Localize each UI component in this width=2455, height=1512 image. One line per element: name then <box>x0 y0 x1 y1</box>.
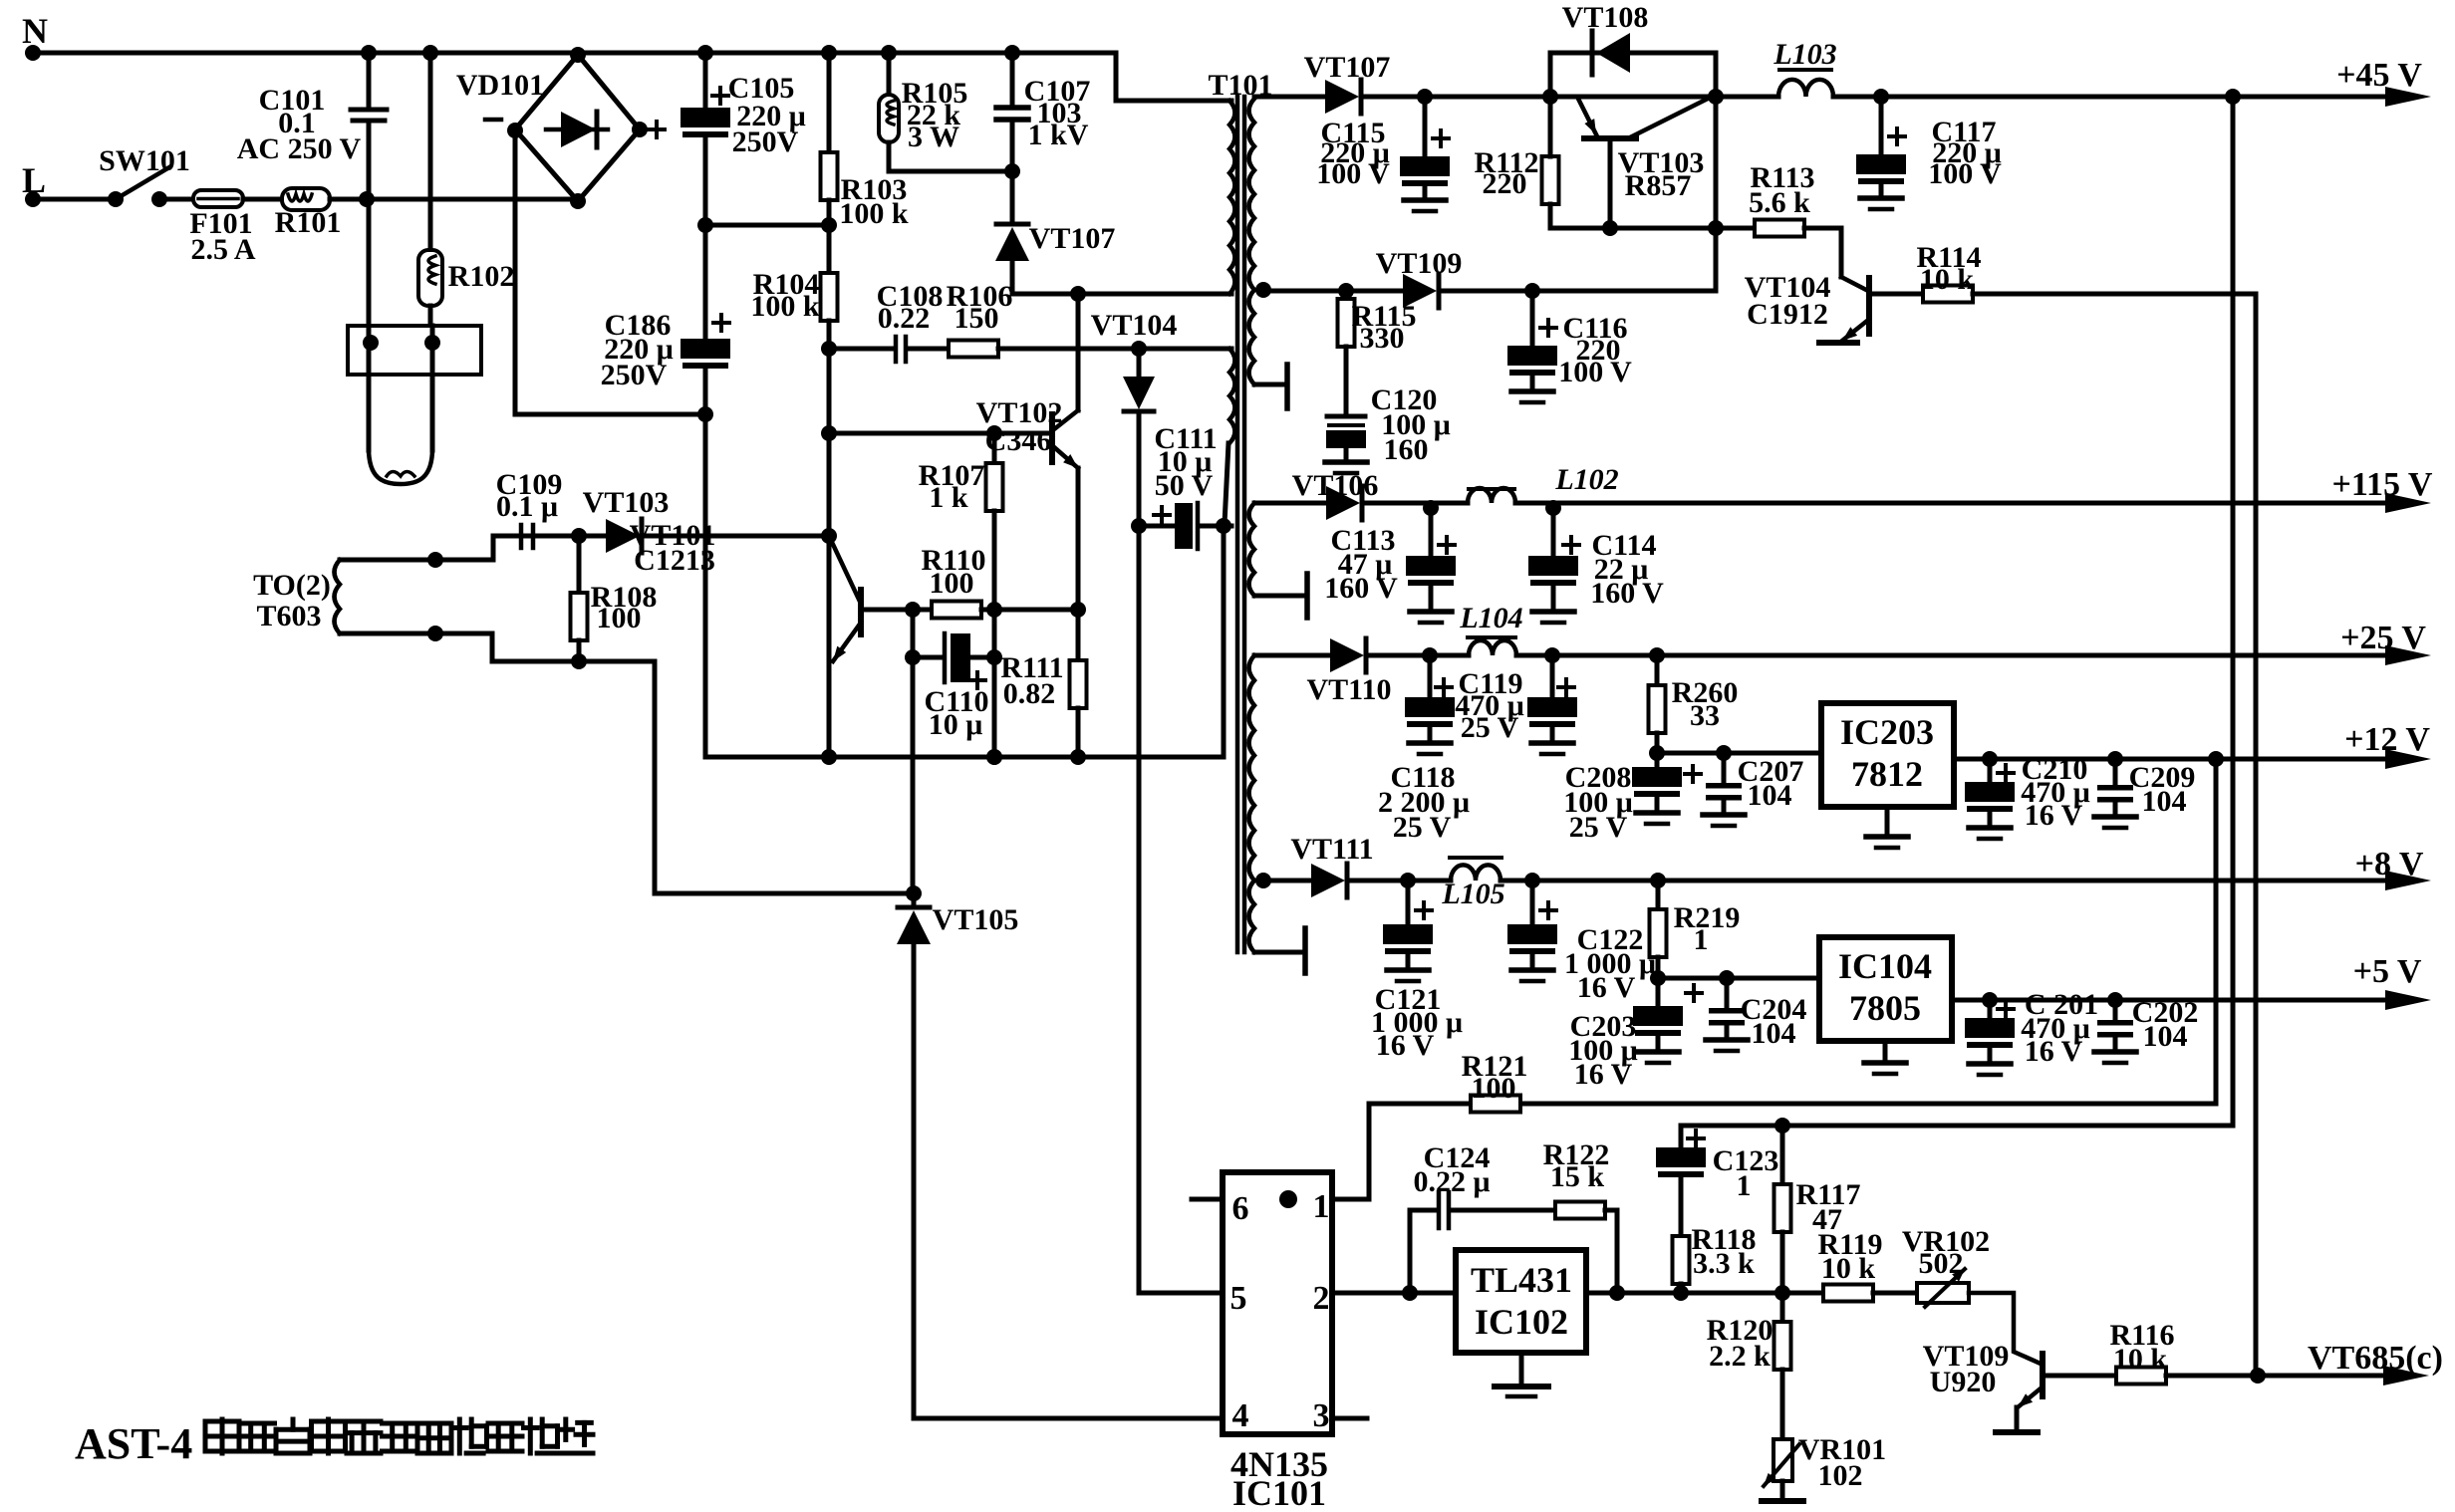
svg-text:330: 330 <box>1360 322 1405 355</box>
svg-text:100: 100 <box>930 567 974 600</box>
svg-text:1 k: 1 k <box>929 481 968 514</box>
svg-text:25 V: 25 V <box>1393 811 1452 844</box>
svg-text:T101: T101 <box>1208 69 1272 102</box>
svg-text:100 k: 100 k <box>839 197 909 230</box>
svg-text:L103: L103 <box>1773 38 1836 71</box>
svg-text:0.1 μ: 0.1 μ <box>496 490 558 523</box>
svg-text:VT109: VT109 <box>1376 247 1463 280</box>
svg-text:3 W: 3 W <box>908 121 959 153</box>
svg-text:160 V: 160 V <box>1324 572 1398 605</box>
svg-text:U920: U920 <box>1930 1366 1997 1398</box>
svg-text:VT108: VT108 <box>1562 1 1649 34</box>
svg-text:16 V: 16 V <box>1577 971 1636 1004</box>
svg-text:VT106: VT106 <box>1292 469 1379 502</box>
svg-text:IC203: IC203 <box>1840 712 1934 752</box>
svg-text:IC104: IC104 <box>1838 946 1932 986</box>
svg-text:VT110: VT110 <box>1306 673 1391 706</box>
svg-text:1: 1 <box>1313 1188 1330 1225</box>
svg-text:100 V: 100 V <box>1928 157 2002 190</box>
svg-text:AST-4: AST-4 <box>75 1419 192 1468</box>
svg-text:SW101: SW101 <box>99 144 190 177</box>
svg-text:100 k: 100 k <box>750 290 820 323</box>
svg-text:502: 502 <box>1919 1247 1964 1280</box>
svg-text:VT107: VT107 <box>1029 222 1116 255</box>
svg-text:TO(2): TO(2) <box>253 569 331 602</box>
svg-text:4: 4 <box>1232 1397 1249 1434</box>
svg-text:R857: R857 <box>1625 169 1692 202</box>
svg-text:L105: L105 <box>1441 878 1504 910</box>
svg-text:100 V: 100 V <box>1316 157 1390 190</box>
svg-text:2.2 k: 2.2 k <box>1709 1340 1771 1373</box>
svg-text:15 k: 15 k <box>1550 1160 1605 1193</box>
svg-text:5: 5 <box>1230 1280 1247 1317</box>
svg-text:1: 1 <box>1737 1169 1752 1202</box>
svg-text:104: 104 <box>2142 785 2187 818</box>
svg-text:100 V: 100 V <box>1558 356 1632 388</box>
svg-text:104: 104 <box>1752 1017 1796 1050</box>
svg-text:R101: R101 <box>275 206 342 239</box>
svg-text:102: 102 <box>1818 1459 1863 1492</box>
svg-text:33: 33 <box>1690 699 1720 732</box>
svg-text:10 k: 10 k <box>1920 263 1975 296</box>
svg-text:250V: 250V <box>732 126 799 158</box>
svg-text:16 V: 16 V <box>1574 1058 1633 1091</box>
svg-text:1: 1 <box>1694 923 1709 956</box>
svg-text:3: 3 <box>1313 1397 1330 1434</box>
svg-text:2.5 A: 2.5 A <box>190 233 255 266</box>
svg-text:R102: R102 <box>448 260 515 293</box>
svg-text:7812: 7812 <box>1851 754 1923 794</box>
svg-text:C346: C346 <box>985 424 1052 457</box>
svg-text:10 k: 10 k <box>1821 1252 1876 1285</box>
svg-text:2: 2 <box>1313 1280 1330 1317</box>
svg-text:16 V: 16 V <box>1376 1029 1435 1062</box>
svg-text:IC102: IC102 <box>1475 1302 1568 1342</box>
svg-text:104: 104 <box>2143 1020 2188 1053</box>
svg-text:VT107: VT107 <box>1304 51 1391 84</box>
svg-text:1 kV: 1 kV <box>1028 119 1089 151</box>
svg-text:+12 V: +12 V <box>2344 721 2430 758</box>
svg-text:L: L <box>22 160 46 200</box>
svg-text:AC 250 V: AC 250 V <box>237 132 362 165</box>
svg-text:220: 220 <box>1483 167 1527 200</box>
svg-text:150: 150 <box>955 302 999 335</box>
svg-text:5.6 k: 5.6 k <box>1749 186 1810 219</box>
svg-text:VT103: VT103 <box>583 486 670 519</box>
svg-text:VT111: VT111 <box>1290 833 1373 866</box>
svg-text:0.22: 0.22 <box>878 302 931 335</box>
svg-text:T603: T603 <box>256 600 321 632</box>
svg-text:C1912: C1912 <box>1747 298 1828 331</box>
svg-text:160: 160 <box>1384 433 1429 466</box>
svg-text:N: N <box>22 11 48 51</box>
svg-text:50 V: 50 V <box>1155 469 1214 502</box>
svg-text:10 μ: 10 μ <box>929 708 983 741</box>
svg-text:VT105: VT105 <box>933 903 1019 936</box>
svg-text:16 V: 16 V <box>2025 1035 2083 1068</box>
svg-text:7805: 7805 <box>1849 988 1921 1028</box>
svg-text:+115 V: +115 V <box>2332 466 2433 503</box>
svg-text:160 V: 160 V <box>1590 577 1664 610</box>
svg-text:6: 6 <box>1232 1190 1249 1227</box>
svg-text:104: 104 <box>1748 779 1792 812</box>
svg-text:0.82: 0.82 <box>1003 677 1056 710</box>
svg-text:3.3 k: 3.3 k <box>1693 1247 1755 1280</box>
svg-text:250V: 250V <box>601 359 668 391</box>
svg-text:+8 V: +8 V <box>2355 846 2424 882</box>
svg-text:+25 V: +25 V <box>2340 620 2426 656</box>
svg-text:C1213: C1213 <box>634 544 715 577</box>
svg-text:+45 V: +45 V <box>2336 57 2422 94</box>
svg-text:0.22 μ: 0.22 μ <box>1413 1165 1490 1198</box>
svg-text:L104: L104 <box>1459 602 1522 634</box>
svg-text:100: 100 <box>597 602 642 634</box>
svg-text:L102: L102 <box>1554 463 1618 496</box>
svg-text:+5 V: +5 V <box>2353 953 2422 990</box>
svg-text:TL431: TL431 <box>1471 1260 1572 1300</box>
svg-text:VD101: VD101 <box>456 69 544 102</box>
svg-text:VT104: VT104 <box>1091 309 1178 342</box>
svg-text:16 V: 16 V <box>2025 799 2083 832</box>
svg-text:10 k: 10 k <box>2113 1343 2168 1376</box>
svg-text:VT685(c): VT685(c) <box>2308 1340 2443 1377</box>
svg-text:100: 100 <box>1472 1072 1516 1105</box>
svg-text:25 V: 25 V <box>1461 711 1519 744</box>
svg-text:IC101: IC101 <box>1232 1473 1326 1512</box>
svg-text:25 V: 25 V <box>1569 811 1628 844</box>
